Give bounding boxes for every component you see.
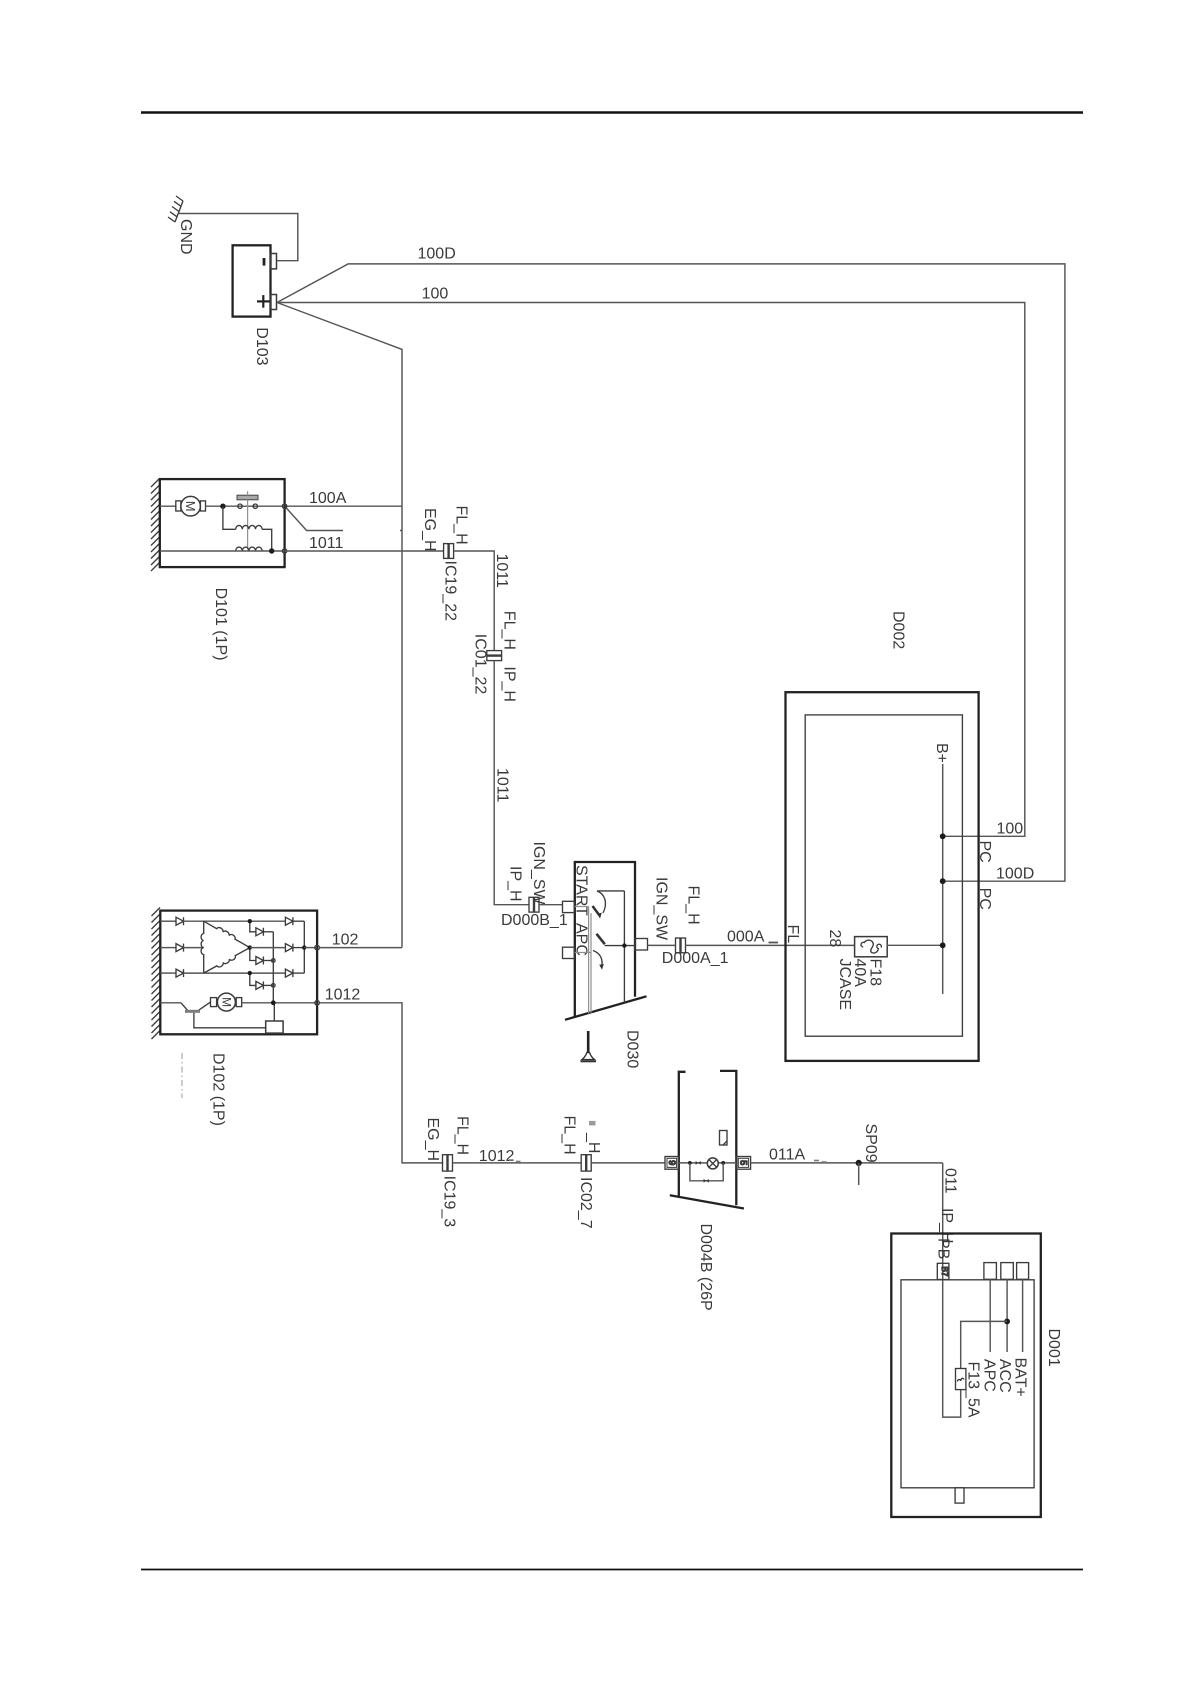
D001 top pins bbox=[984, 1263, 997, 1280]
D001 inner box bbox=[901, 1280, 1034, 1488]
ground GND symbol bbox=[168, 196, 183, 222]
wire 100 bbox=[277, 303, 1025, 837]
svg-text:FL: FL bbox=[784, 925, 801, 944]
svg-text:5: 5 bbox=[738, 1160, 748, 1165]
svg-text:FL_H: FL_H bbox=[685, 886, 702, 925]
diode D102 mid-1 bbox=[250, 921, 256, 932]
svg-text:D002: D002 bbox=[889, 611, 906, 649]
node 100D bbox=[940, 878, 946, 884]
diode D102 left-2 bbox=[176, 944, 184, 952]
resistor shunt loop bbox=[690, 1163, 723, 1181]
svg-text:100D: 100D bbox=[996, 866, 1034, 883]
battery D103 bbox=[233, 245, 277, 316]
pin B7 bbox=[937, 1263, 949, 1279]
fuse F18 bbox=[855, 937, 888, 957]
connector IC02_7 bbox=[581, 1155, 591, 1171]
connector D000A_1 bbox=[676, 938, 686, 953]
svg-text:1011: 1011 bbox=[309, 535, 344, 552]
svg-text:GND: GND bbox=[177, 219, 194, 255]
svg-text:IGN_SW: IGN_SW bbox=[653, 877, 670, 941]
D102 delta winding bbox=[201, 919, 251, 975]
diode D102 right-1 bbox=[285, 917, 293, 925]
pin 5 bbox=[736, 1157, 750, 1170]
diode D102 mid-2 bbox=[250, 948, 256, 961]
svg-text:B7: B7 bbox=[940, 1267, 949, 1277]
lamp charge indicator bbox=[707, 1158, 718, 1169]
dash-dot leader bbox=[181, 1053, 183, 1098]
node (coil to 1011) bbox=[269, 548, 274, 553]
svg-text:IP_H: IP_H bbox=[500, 666, 517, 702]
svg-text:ACC: ACC bbox=[996, 1359, 1013, 1393]
D101 solenoid coil lower bbox=[236, 547, 262, 551]
svg-text:D102 (1P): D102 (1P) bbox=[210, 1053, 227, 1126]
top rule bbox=[141, 111, 1083, 114]
node 100 bbox=[940, 833, 946, 839]
svg-text:9: 9 bbox=[667, 1160, 677, 1165]
wire phase U bbox=[160, 920, 176, 922]
svg-text:1012: 1012 bbox=[325, 987, 361, 1004]
fuse box D002 inner bbox=[805, 715, 962, 1036]
svg-text:_H: _H bbox=[585, 1132, 602, 1153]
svg-text:D004B (26P: D004B (26P bbox=[697, 1224, 714, 1311]
node F18 bbox=[940, 942, 946, 948]
diode D102 left-3 bbox=[176, 969, 184, 977]
node ACC junction bbox=[1004, 1319, 1010, 1325]
svg-text:F13_5A: F13_5A bbox=[964, 1362, 981, 1418]
svg-text:D103: D103 bbox=[253, 327, 270, 365]
wire 100A bbox=[285, 505, 402, 507]
D101 solenoid coil upper bbox=[223, 506, 272, 551]
lamp circuit inside D004B bbox=[679, 1131, 737, 1183]
svg-text:IC19_22: IC19_22 bbox=[442, 561, 459, 622]
svg-text:PB: PB bbox=[935, 1238, 952, 1259]
svg-text:FL_H: FL_H bbox=[561, 1116, 578, 1155]
diode D102 right-2 bbox=[285, 944, 293, 952]
svg-text:011A: 011A bbox=[769, 1147, 806, 1164]
svg-text:000A: 000A bbox=[727, 929, 765, 946]
D101 relay contacts bbox=[237, 491, 258, 549]
svg-text:100D: 100D bbox=[418, 246, 456, 263]
B+ bus line bbox=[942, 764, 944, 994]
svg-text:1012: 1012 bbox=[479, 1148, 515, 1165]
D102 phase wires and diodes bbox=[160, 917, 285, 977]
svg-text:START: START bbox=[573, 865, 590, 916]
wire 1012 bbox=[319, 1003, 443, 1163]
connector D000B_1 bbox=[529, 897, 539, 912]
node shunt left bbox=[688, 1161, 692, 1165]
svg-text:B+: B+ bbox=[933, 743, 950, 763]
svg-text:D101 (1P): D101 (1P) bbox=[212, 588, 229, 661]
svg-text:M: M bbox=[183, 501, 198, 512]
svg-text:M: M bbox=[219, 997, 233, 1007]
svg-text:1011: 1011 bbox=[493, 554, 510, 589]
node shunt right bbox=[721, 1161, 725, 1165]
right bus bbox=[303, 921, 305, 973]
svg-text:011: 011 bbox=[942, 1168, 959, 1194]
svg-text:EG_H: EG_H bbox=[424, 1118, 441, 1162]
internal wire B7 to fuse to ACC bbox=[943, 1280, 961, 1417]
wire 1011 vertical lower bbox=[494, 661, 529, 905]
svg-text:102: 102 bbox=[332, 932, 359, 949]
pin 100A at D101 edge bbox=[282, 504, 286, 508]
D102 middle diodes bbox=[250, 921, 273, 1003]
D001 bottom tab bbox=[955, 1488, 964, 1503]
wire 011A bbox=[751, 1162, 943, 1164]
svg-text:FL_H: FL_H bbox=[453, 506, 470, 545]
connector D004B box bbox=[670, 1071, 744, 1209]
svg-text:IC01_22: IC01_22 bbox=[472, 634, 489, 695]
svg-text:APC: APC bbox=[980, 1359, 997, 1392]
label IP_H (partially hidden) bbox=[589, 1121, 596, 1126]
wire 1011 to corner bbox=[454, 551, 495, 651]
svg-text:IGN_SW: IGN_SW bbox=[530, 842, 547, 906]
wire jog from D101 terminal bbox=[285, 506, 402, 530]
svg-text:FL_H: FL_H bbox=[454, 1116, 471, 1155]
connector IC19_3 bbox=[443, 1155, 453, 1171]
svg-text:100: 100 bbox=[422, 286, 449, 303]
wire ignition output bbox=[648, 944, 676, 946]
middle bus bbox=[272, 932, 274, 1003]
D102 bottom wire bbox=[242, 1002, 317, 1004]
splice SP09 bbox=[856, 1160, 862, 1166]
wire 1012 mid bbox=[453, 1162, 582, 1164]
svg-text:APC: APC bbox=[573, 923, 590, 956]
connector IC19_22 bbox=[444, 544, 454, 559]
alternator D102 box bbox=[152, 908, 318, 1040]
wire 000A bbox=[686, 944, 855, 946]
fuse box D002 outer bbox=[786, 692, 979, 1061]
fuse F13_5A bbox=[956, 1369, 966, 1390]
wire 102 bbox=[319, 947, 402, 949]
diode D102 right-3 bbox=[285, 969, 293, 977]
svg-text:D030: D030 bbox=[624, 1030, 641, 1068]
node (D101 top wire) bbox=[220, 504, 225, 509]
starter D101 box bbox=[151, 479, 285, 572]
pin 102 bbox=[304, 947, 317, 949]
svg-text:100: 100 bbox=[997, 821, 1024, 838]
node middle bus taps bbox=[248, 919, 252, 923]
svg-text:IP_H: IP_H bbox=[507, 866, 524, 902]
svg-text:D000B_1: D000B_1 bbox=[501, 912, 568, 929]
unit D001 outer box bbox=[891, 1234, 1041, 1518]
wire battery to node vertical bbox=[277, 303, 402, 948]
wire battery minus to ground bbox=[179, 214, 298, 261]
pin lines APC ACC BAT+ bbox=[989, 1279, 991, 1352]
svg-text:F18: F18 bbox=[867, 959, 884, 987]
svg-text:28: 28 bbox=[826, 930, 843, 948]
D102 right diodes bbox=[250, 917, 304, 977]
svg-text:1011: 1011 bbox=[494, 768, 511, 803]
resistor mark bbox=[704, 1179, 709, 1183]
wire pin9 to lamp bbox=[679, 1162, 708, 1164]
bottom rule bbox=[141, 1569, 1083, 1571]
D101 bottom wire bbox=[160, 550, 285, 552]
splice mark bbox=[696, 1161, 701, 1165]
D102 rotor motor M bbox=[211, 993, 242, 1011]
svg-text:FL_H: FL_H bbox=[500, 611, 517, 650]
svg-text:PC: PC bbox=[976, 841, 993, 863]
wire 100D bbox=[277, 264, 1065, 881]
wire 1012 to D004B bbox=[591, 1162, 665, 1164]
svg-text:EG_H: EG_H bbox=[421, 508, 438, 552]
D102 regulator box bbox=[266, 1021, 283, 1033]
wire phase V bbox=[160, 947, 176, 949]
wire lamp to pin5 bbox=[718, 1162, 736, 1164]
wire phase W bbox=[160, 972, 176, 974]
svg-text:JCASE: JCASE bbox=[836, 959, 853, 1011]
D102 regulator transistor bbox=[160, 1002, 265, 1028]
diode D102 left-1 bbox=[176, 917, 184, 925]
svg-text:IC19_3: IC19_3 bbox=[441, 1176, 458, 1228]
key symbol bbox=[581, 1031, 597, 1061]
svg-text:D001: D001 bbox=[1045, 1329, 1062, 1367]
svg-text:IC02_7: IC02_7 bbox=[577, 1177, 594, 1229]
wire fuse to B+ node bbox=[887, 944, 943, 946]
pin 1011 at D101 edge bbox=[282, 549, 286, 553]
D101 motor M bbox=[160, 496, 285, 516]
svg-text:PC: PC bbox=[976, 888, 993, 910]
node right bus bbox=[302, 945, 306, 949]
svg-text:BAT+: BAT+ bbox=[1011, 1358, 1028, 1397]
wire 011 vertical bbox=[942, 1163, 944, 1280]
diode D102 mid-3 bbox=[250, 973, 256, 985]
connector IC01_22 bbox=[487, 651, 502, 661]
svg-text:100A: 100A bbox=[309, 490, 347, 507]
wire 1011 horizontal bbox=[285, 550, 444, 552]
small icon bbox=[720, 1131, 728, 1146]
svg-text:D000A_1: D000A_1 bbox=[662, 950, 729, 967]
wire to START pin bbox=[539, 904, 563, 906]
pin 9 bbox=[665, 1157, 679, 1170]
svg-text:SP09: SP09 bbox=[862, 1124, 879, 1163]
ignition switch D030 bbox=[563, 862, 648, 1020]
